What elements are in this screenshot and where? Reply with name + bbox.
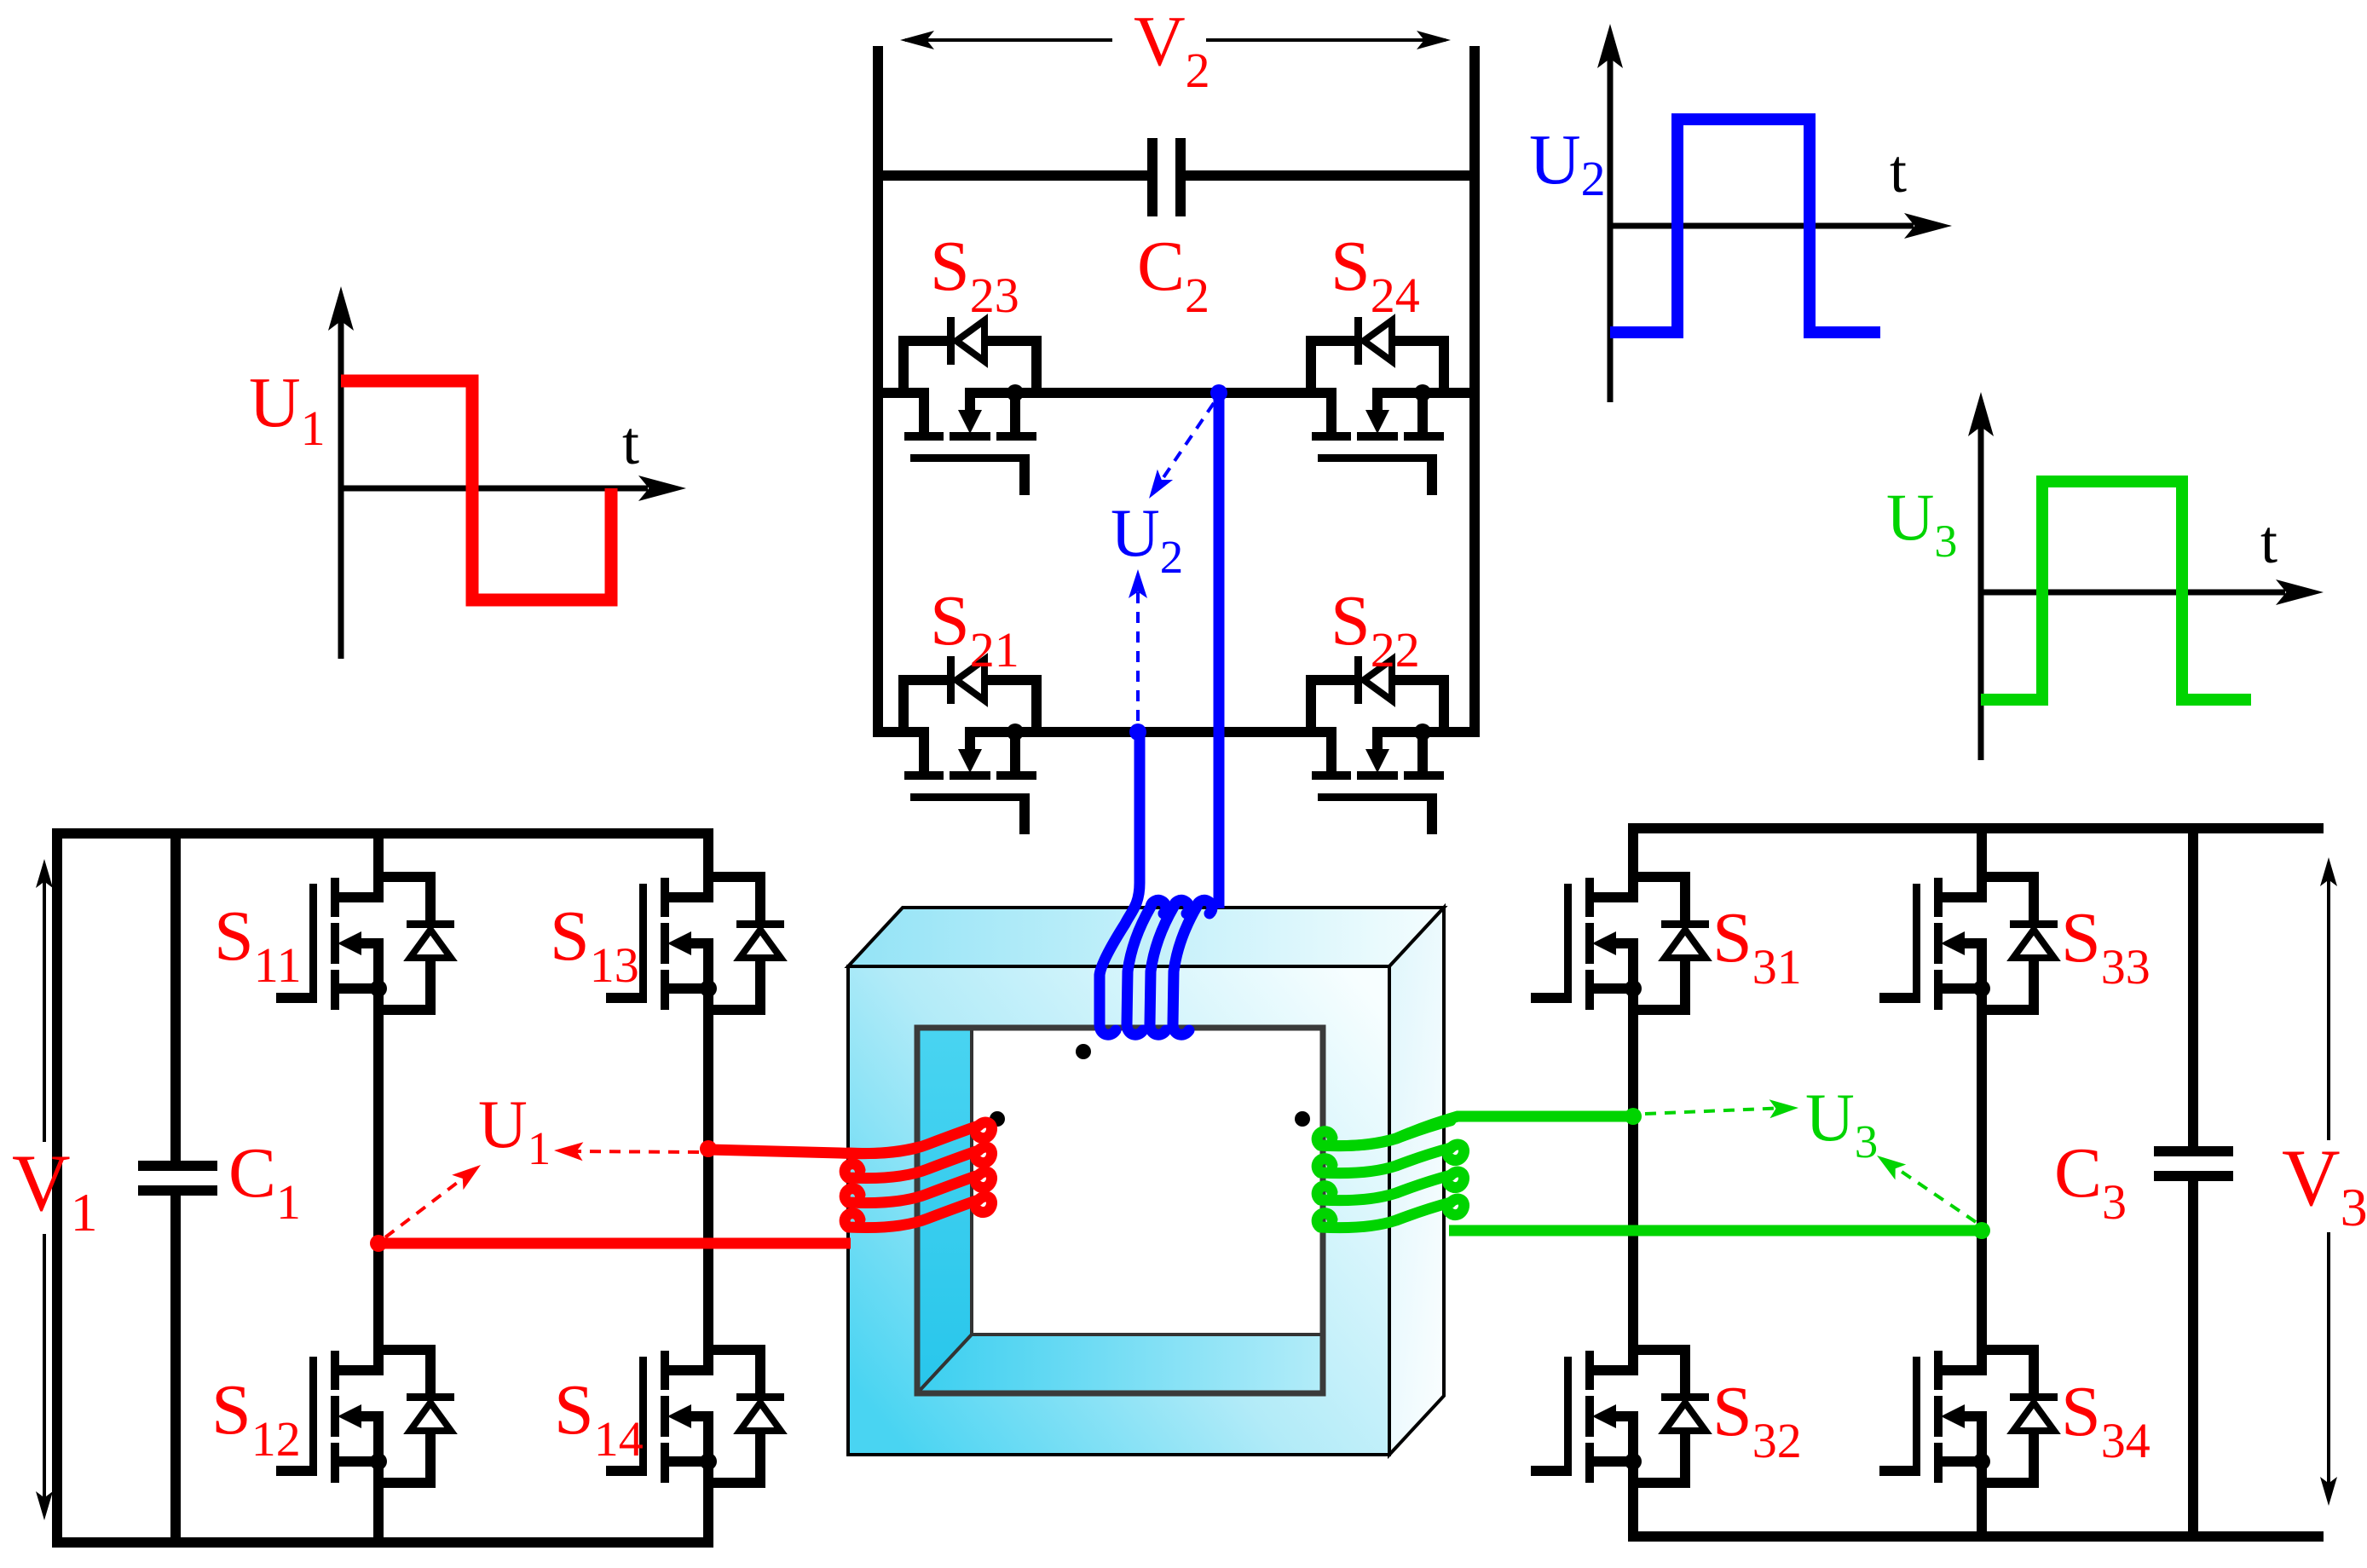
transistor S31 bbox=[1531, 872, 1709, 1015]
U1 waveform curve bbox=[341, 381, 611, 600]
V1 dimension arrow bbox=[43, 878, 46, 1142]
svg-text:U1: U1 bbox=[249, 363, 326, 456]
wire: node U1a to S12 drain bbox=[373, 1242, 384, 1346]
wire: S12 source to bottom rail bbox=[373, 1486, 384, 1544]
wire: port2 right rail bbox=[1469, 46, 1480, 737]
wire: green tertiary upper lead bbox=[1320, 1116, 1633, 1146]
dashed arrow node U2b to label U2 bbox=[1136, 583, 1140, 721]
transformer core T1 hole outline bbox=[917, 1028, 1323, 1393]
transformer core T1 top face bbox=[848, 908, 1444, 966]
svg-text:t: t bbox=[622, 409, 639, 477]
wire: blue secondary left feed + first turn bbox=[1100, 737, 1140, 1035]
winding: primary (red) bbox=[848, 1122, 992, 1154]
wire: S13 source to node U1b bbox=[703, 1013, 713, 1150]
node U3a (green) bbox=[1625, 1108, 1642, 1125]
svg-text:S24: S24 bbox=[1331, 227, 1420, 323]
wire: red primary lower lead bbox=[378, 1238, 851, 1249]
U3 waveform plot axes bbox=[1978, 412, 1984, 760]
wire: node U3a to S32 drain bbox=[1628, 1116, 1638, 1346]
svg-text:S23: S23 bbox=[930, 227, 1019, 323]
transistor S21 bbox=[898, 656, 1042, 834]
transistor S33 bbox=[1879, 872, 2058, 1015]
transistor S34 bbox=[1879, 1345, 2058, 1488]
svg-text:U2: U2 bbox=[1529, 120, 1606, 206]
wire: S33 drain to top rail bbox=[1977, 832, 1987, 873]
wire: S11 source to node U1a bbox=[373, 1013, 384, 1244]
transformer core T1 front face bbox=[848, 966, 1389, 1455]
U2 waveform plot axes bbox=[1608, 44, 1614, 402]
wire: left bridge top rail bbox=[57, 833, 713, 1548]
svg-text:S32: S32 bbox=[1712, 1372, 1802, 1468]
transistor S23 bbox=[898, 317, 1042, 495]
wire: red primary upper lead bbox=[708, 1147, 919, 1154]
svg-text:S21: S21 bbox=[930, 581, 1019, 677]
svg-text:C2: C2 bbox=[1137, 227, 1209, 323]
svg-text:C3: C3 bbox=[2054, 1133, 2127, 1230]
svg-text:S11: S11 bbox=[214, 896, 302, 993]
svg-text:C1: C1 bbox=[228, 1133, 301, 1230]
svg-text:S22: S22 bbox=[1331, 581, 1420, 677]
winding polarity dot (primary) bbox=[990, 1111, 1005, 1127]
dashed arrow node U2a to label U2 bbox=[1155, 403, 1214, 490]
node U1a (red) bbox=[370, 1235, 387, 1252]
dashed arrow node U1a to label U1 bbox=[385, 1175, 467, 1237]
transistor S13 bbox=[606, 872, 784, 1015]
wire: node U1b to S14 drain bbox=[703, 1149, 713, 1346]
V3 dimension arrow bbox=[2327, 876, 2330, 1140]
wire: left bridge bottom rail bbox=[52, 1537, 713, 1548]
svg-text:S14: S14 bbox=[554, 1370, 644, 1467]
transformer core T1 inner bottom wall bbox=[917, 1335, 1377, 1393]
transformer core T1 right face bbox=[1389, 908, 1444, 1455]
node U2b (blue) bbox=[1129, 723, 1146, 741]
svg-text:t: t bbox=[1890, 137, 1907, 205]
wire: S31 source to node U3a bbox=[1628, 1013, 1638, 1118]
winding polarity dot (port 3) bbox=[1295, 1111, 1310, 1127]
wire: right bridge bottom rail bbox=[1628, 1531, 2324, 1542]
node U1b (red) bbox=[700, 1140, 717, 1157]
V2 dimension arrow bbox=[905, 38, 1112, 42]
svg-text:V2: V2 bbox=[1134, 2, 1210, 98]
transistor S11 bbox=[276, 872, 454, 1015]
winding: tertiary (green) bbox=[1317, 1121, 1451, 1146]
winding polarity dot (port 2) bbox=[1076, 1044, 1091, 1059]
capacitor C1 bbox=[170, 833, 181, 1161]
transistor S12 bbox=[276, 1345, 454, 1488]
wire: S31 drain to top rail bbox=[1628, 832, 1638, 873]
node U3b (green) bbox=[1973, 1222, 1990, 1239]
transistor S24 bbox=[1306, 317, 1449, 495]
svg-text:S33: S33 bbox=[2061, 898, 2151, 994]
capacitor C2 bbox=[873, 170, 1151, 181]
wire: port2 mid rail bbox=[873, 388, 902, 398]
dashed arrow node U1b to label U1 bbox=[569, 1151, 699, 1152]
wire: port2 left rail bbox=[873, 46, 883, 737]
wire: S34 source to bottom rail bbox=[1977, 1486, 1987, 1538]
transistor S14 bbox=[606, 1345, 784, 1488]
dashed arrow node U3b to label U3 bbox=[1885, 1161, 1976, 1222]
svg-text:U3: U3 bbox=[1805, 1081, 1878, 1167]
wire: blue secondary right feed bbox=[1214, 398, 1225, 908]
svg-text:V1: V1 bbox=[12, 1138, 98, 1242]
svg-text:U3: U3 bbox=[1886, 480, 1957, 567]
svg-text:U2: U2 bbox=[1111, 496, 1183, 583]
svg-text:S31: S31 bbox=[1712, 898, 1802, 994]
wire: S33 source to node U3b bbox=[1977, 1013, 1987, 1232]
wire: S32 source to bottom rail bbox=[1628, 1486, 1638, 1538]
wire: S11 drain to top rail bbox=[373, 837, 384, 873]
transistor S32 bbox=[1531, 1345, 1709, 1488]
transformer core T1 inner left wall bbox=[917, 969, 1377, 1393]
wire: port2 bottom rail bbox=[873, 727, 902, 737]
svg-text:t: t bbox=[2260, 508, 2278, 576]
wire: right bridge top rail bbox=[1628, 823, 2324, 833]
U1 waveform plot axes bbox=[338, 300, 344, 659]
svg-text:S13: S13 bbox=[550, 896, 639, 993]
U2 waveform curve bbox=[1610, 119, 1880, 332]
wire: S13 drain to top rail bbox=[703, 837, 713, 873]
svg-text:S34: S34 bbox=[2061, 1372, 2151, 1468]
svg-text:S12: S12 bbox=[211, 1370, 301, 1467]
node U2a (blue) bbox=[1210, 384, 1227, 401]
wire: node U3b to S34 drain bbox=[1977, 1231, 1987, 1346]
capacitor C3 bbox=[2188, 828, 2198, 1146]
transistor S22 bbox=[1306, 656, 1449, 834]
svg-text:V3: V3 bbox=[2282, 1133, 2367, 1237]
U3 waveform curve bbox=[1981, 481, 2251, 700]
wire: S14 source to bottom rail bbox=[703, 1486, 713, 1544]
svg-text:U1: U1 bbox=[478, 1087, 551, 1174]
winding: secondary (blue) bbox=[1127, 900, 1166, 1035]
dashed arrow node U3a to label U3 bbox=[1645, 1108, 1787, 1114]
wire: green tertiary lower lead bbox=[1449, 1225, 1982, 1237]
